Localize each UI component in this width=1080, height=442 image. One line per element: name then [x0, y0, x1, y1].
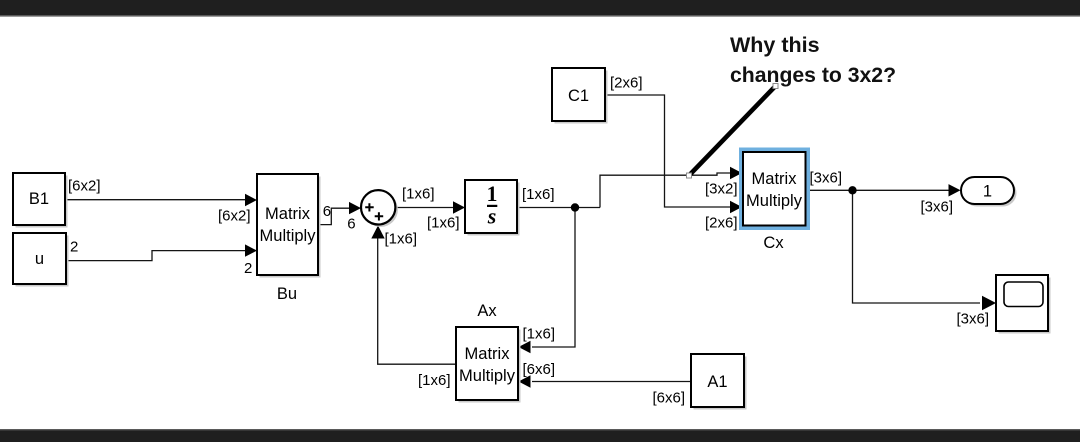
- svg-text:1: 1: [983, 183, 992, 201]
- block scope: [996, 275, 1051, 334]
- arrowhead Ax input 1: [519, 341, 531, 353]
- svg-text:Multiply: Multiply: [260, 227, 317, 245]
- wire Ax output to sum bottom: [378, 238, 456, 364]
- svg-text:[2x6]: [2x6]: [610, 75, 643, 92]
- svg-text:[3x6]: [3x6]: [810, 170, 843, 187]
- block Cx matrix multiply (selected, blue highlight): [739, 148, 810, 231]
- svg-text:[1x6]: [1x6]: [402, 186, 435, 203]
- wire u to Bu input 2: [66, 251, 246, 261]
- wire junction 2 down to scope: [853, 190, 981, 303]
- svg-text:[1x6]: [1x6]: [522, 186, 555, 203]
- wire Cx output to junction 2: [806, 189, 949, 191]
- svg-text:[2x6]: [2x6]: [705, 215, 738, 232]
- svg-text:u: u: [35, 250, 44, 268]
- svg-text:Why this: Why this: [730, 33, 820, 57]
- svg-text:Cx: Cx: [763, 234, 784, 252]
- wire A1 to Ax input 2: [532, 381, 691, 383]
- arrowhead sum left input: [349, 202, 361, 214]
- block Ax matrix multiply (mirrored): [456, 327, 521, 403]
- svg-text:[1x6]: [1x6]: [427, 215, 460, 232]
- svg-text:Matrix: Matrix: [265, 205, 311, 223]
- svg-text:6: 6: [347, 216, 355, 233]
- svg-text:Ax: Ax: [477, 302, 497, 320]
- svg-text:[1x6]: [1x6]: [385, 231, 418, 248]
- outport 1 oval: [961, 177, 1017, 207]
- svg-text:A1: A1: [707, 373, 727, 391]
- junction dot B: [848, 186, 856, 194]
- junction dot A: [571, 203, 579, 211]
- arrowhead Bu input 1: [245, 194, 257, 206]
- svg-text:[3x6]: [3x6]: [921, 199, 954, 216]
- arrowhead scope input: [982, 296, 996, 310]
- svg-text:s: s: [487, 204, 497, 229]
- svg-text:Multiply: Multiply: [746, 192, 803, 210]
- top toolbar bar: [0, 0, 1080, 15]
- wire Bu output to sum: [319, 208, 351, 224]
- wire integrator output to junction: [518, 207, 601, 209]
- svg-text:Multiply: Multiply: [459, 367, 516, 385]
- annotation handle bottom: [687, 173, 692, 178]
- svg-text:changes to 3x2?: changes to 3x2?: [730, 64, 896, 87]
- svg-text:[6x6]: [6x6]: [523, 361, 556, 378]
- svg-text:[3x6]: [3x6]: [957, 311, 990, 328]
- arrowhead Ax input 2: [519, 375, 531, 387]
- arrowhead integrator input: [453, 201, 465, 213]
- svg-text:[6x2]: [6x2]: [68, 178, 101, 195]
- arrowhead outport input: [949, 184, 961, 196]
- svg-text:C1: C1: [568, 87, 589, 105]
- block A1: [691, 354, 747, 410]
- svg-text:[1x6]: [1x6]: [523, 326, 556, 343]
- svg-text:[1x6]: [1x6]: [418, 372, 451, 389]
- block integrator 1/s: [465, 180, 520, 236]
- block C1: [552, 68, 608, 124]
- block u: [13, 233, 69, 287]
- svg-text:Matrix: Matrix: [465, 345, 511, 363]
- svg-text:2: 2: [244, 260, 252, 277]
- arrowhead Cx input 2: [730, 201, 742, 213]
- annotation arrow line: [689, 86, 776, 176]
- svg-text:Bu: Bu: [277, 285, 297, 303]
- arrowhead sum bottom input: [371, 226, 384, 239]
- wire junction down to Ax input 1: [532, 208, 575, 348]
- bottom toolbar bar: [0, 430, 1080, 442]
- annotation handle top: [773, 84, 778, 89]
- svg-text:[6x6]: [6x6]: [653, 390, 686, 407]
- wire B1 to Bu input 1: [66, 199, 247, 201]
- block Bu matrix multiply: [257, 174, 321, 278]
- svg-text:6: 6: [323, 203, 331, 220]
- svg-text:2: 2: [70, 239, 78, 256]
- svg-text:B1: B1: [29, 190, 49, 208]
- arrowhead Cx input 1: [730, 167, 742, 179]
- block B1: [13, 173, 68, 228]
- sum block: [361, 190, 398, 227]
- wire sum to integrator: [397, 207, 455, 209]
- svg-text:[3x2]: [3x2]: [705, 181, 738, 198]
- svg-text:Matrix: Matrix: [752, 170, 798, 188]
- arrowhead Bu input 2: [245, 244, 257, 256]
- wire C1 to Cx input 2: [606, 95, 732, 207]
- svg-text:[6x2]: [6x2]: [218, 208, 251, 225]
- svg-text:1: 1: [487, 181, 498, 206]
- wire junction up to Cx input 1: [600, 173, 731, 208]
